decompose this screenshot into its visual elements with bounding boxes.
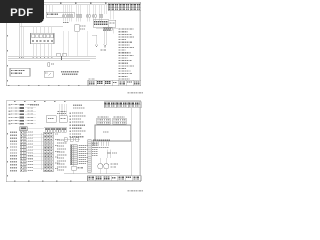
connector header with pin numbers — [93, 20, 109, 28]
connector header plug — [20, 127, 44, 132]
transistor Q2 — [104, 158, 119, 174]
terminal strip X1 grid — [44, 132, 60, 172]
drawing note text — [61, 71, 79, 75]
harness wires to X1 — [33, 133, 44, 170]
main module box right — [95, 125, 131, 141]
lamp H1 symbol — [101, 28, 113, 51]
title strip page 2 — [88, 176, 142, 181]
watermark page 2 — [128, 190, 144, 192]
sheet label box — [46, 12, 74, 17]
DIN pin wires and labels — [77, 145, 88, 164]
ground rail — [64, 173, 120, 175]
transistor Q1 — [98, 158, 103, 174]
risers into A3 — [57, 104, 66, 116]
wire risers to component row — [63, 17, 102, 21]
page 1 sheet frame — [6, 2, 140, 86]
fuse row F1..F7 — [63, 5, 103, 17]
svg-text:PDF: PDF — [10, 7, 33, 19]
transistor feed wires — [107, 150, 117, 159]
module A2 box — [46, 116, 56, 123]
wire risers center to bus — [63, 31, 87, 56]
motor M1 box — [44, 71, 53, 77]
DIN connector grid — [70, 145, 77, 165]
watermark page 1 — [128, 92, 144, 94]
riser labels — [58, 105, 86, 112]
connector rows with plug symbols — [10, 131, 33, 172]
title strip (bottom) — [88, 78, 141, 85]
page 2 sheet frame — [6, 101, 140, 182]
connector grids on module top — [97, 116, 127, 124]
ECU pin list text — [70, 112, 86, 137]
module A3 box — [59, 116, 67, 123]
PDF badge — [0, 0, 44, 23]
parts legend list — [119, 29, 135, 80]
ground bus lines — [8, 53, 96, 60]
input signal rows — [9, 104, 39, 125]
title block page 2 (top right) — [104, 102, 141, 108]
sensor rows left of DIN — [57, 139, 67, 170]
control unit A1 terminal block — [31, 33, 55, 44]
terminal row X2 — [44, 127, 67, 132]
module pin band — [93, 139, 110, 140]
frame inner line right page 1 — [138, 2, 140, 80]
resistor R1 drop wire — [92, 35, 98, 47]
fuse F10 symbol — [48, 63, 54, 67]
ladder labels — [92, 141, 98, 156]
title block (top right) — [108, 3, 141, 10]
valve Y1 below DIN — [72, 165, 83, 174]
wire from badge area down — [20, 23, 64, 56]
relay K2 block — [63, 22, 86, 31]
vertical ladder strip — [88, 140, 91, 172]
wires A1 to bus — [33, 44, 52, 57]
small boxes above DIN — [62, 138, 80, 141]
relay K3 box — [96, 20, 118, 34]
legend box (bottom left) — [10, 68, 30, 76]
extra wire risers top — [47, 5, 114, 20]
frame inner line right page 2 — [138, 101, 140, 176]
wires below module — [93, 108, 131, 176]
